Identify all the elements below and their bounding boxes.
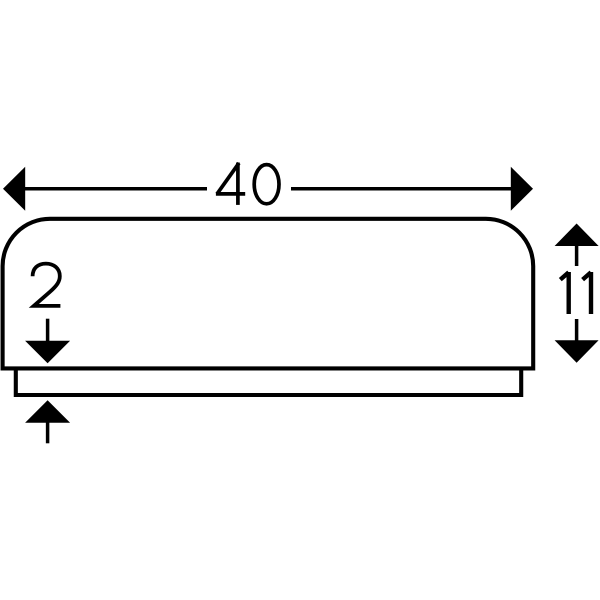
base strip outline [16,369,521,395]
dimension 2: lower leader line [46,423,50,444]
label 11: first digit 1 [560,272,568,314]
dimension 40: left arrowhead [3,167,25,211]
dimension 40: right arrowhead [511,167,533,211]
dimension 11: upper line segment [575,245,579,266]
dimension 2: down arrowhead [25,341,70,364]
label 40: digit 4 [216,163,245,205]
dimension 40: left line segment [24,187,207,191]
dimension 11: lower line segment [575,319,579,341]
label 11: second digit 1 [583,272,591,314]
label 2 [33,264,61,306]
dimension 11: top arrowhead (up) [555,224,599,247]
label 40: digit 0 [254,165,279,204]
dimension 2: upper leader line [46,319,50,341]
dimension 11: bottom arrowhead (down) [555,340,599,363]
main body outline (rounded top cover profile) [3,219,534,369]
dimension 2: up arrowhead [25,400,70,423]
dimension 40: right line segment [291,187,512,191]
